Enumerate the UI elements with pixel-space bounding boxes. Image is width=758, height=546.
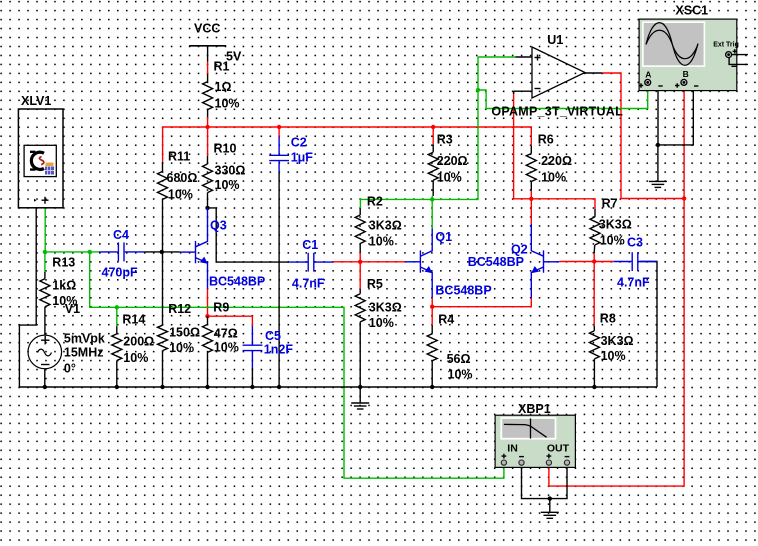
wire C5 bottom to bus: [251, 368, 253, 387]
resistor R7: [590, 217, 600, 245]
wire R7 bottom to node: [593, 253, 595, 262]
svg-text:3K3Ω: 3K3Ω: [369, 219, 402, 233]
junction black dot R4 at bus: [430, 385, 434, 389]
svg-text:C2: C2: [291, 136, 307, 150]
svg-text:10%: 10%: [215, 97, 240, 111]
wire scope A- and B- to ground: [658, 85, 693, 145]
instrument XLV1 box: [18, 109, 63, 208]
wire R1 bottom to bus: [207, 117, 209, 127]
resistor R8: [589, 331, 599, 359]
svg-text:C4: C4: [113, 228, 129, 242]
wire XLV1 - terminal down to ground bus: [19, 208, 36, 387]
svg-text:4.7nF: 4.7nF: [292, 277, 325, 291]
junction red dot C2 at bus: [277, 125, 281, 129]
wire ground bus along bottom: [19, 386, 657, 388]
transistor Q3: [180, 208, 208, 289]
junction red dot Q3 emitter / R9: [205, 314, 209, 318]
junction red dot Q1-Q2 emitters / R4: [430, 305, 434, 309]
svg-text:3K3Ω: 3K3Ω: [601, 334, 634, 348]
svg-text:3K3Ω: 3K3Ω: [599, 218, 632, 232]
svg-text:C5: C5: [265, 329, 281, 343]
svg-text:BC548BP: BC548BP: [468, 255, 524, 269]
transistor Q1: [405, 229, 432, 298]
svg-text:330Ω: 330Ω: [215, 164, 246, 178]
svg-text:10%: 10%: [123, 351, 148, 365]
wire R2 bottom to node: [359, 253, 361, 262]
svg-text:XSC1: XSC1: [675, 4, 708, 18]
resistor R14: [112, 334, 122, 361]
junction green dot R3/R2/Q1 collector: [430, 197, 434, 201]
junction red dot R1/R10 at bus: [205, 125, 209, 129]
junction green dot R14: [115, 305, 119, 309]
svg-text:1Ω: 1Ω: [215, 80, 232, 94]
svg-text:1μF: 1μF: [291, 151, 314, 165]
resistor R1: [203, 82, 213, 110]
junction black dot R9 at bus: [205, 385, 209, 389]
op-amp U1: [514, 47, 603, 98]
wire op+ branch to scope channel A: [478, 85, 648, 109]
wire input node down to R13 top: [44, 252, 46, 272]
junction black dot R12 at bus: [160, 385, 164, 389]
svg-text:BC548BP: BC548BP: [209, 275, 265, 289]
wire R10 bottom to Q3 collector node: [207, 193, 209, 208]
svg-text:BC548BP: BC548BP: [435, 283, 491, 297]
wire branch to R14 top: [116, 307, 118, 326]
resistor R6: [526, 154, 536, 182]
svg-text:200Ω: 200Ω: [123, 335, 154, 349]
capacitor C5: [243, 326, 263, 368]
junction black dot V1 at bus: [43, 385, 47, 389]
resistor R5: [355, 294, 365, 322]
svg-text:Q3: Q3: [210, 219, 227, 233]
junction black dot scope ground: [656, 143, 660, 147]
wire node to Q2 collector: [530, 199, 532, 224]
svg-text:R3: R3: [437, 133, 453, 147]
svg-text:3K3Ω: 3K3Ω: [369, 301, 402, 315]
wire R3 bottom to node: [431, 196, 433, 199]
wire R2 top to op-amp + net: [360, 57, 515, 208]
wire VCC symbol to R1 (red segment): [207, 62, 209, 75]
svg-text:C3: C3: [627, 236, 643, 250]
svg-text:220Ω: 220Ω: [541, 154, 572, 168]
svg-text:XLV1: XLV1: [21, 94, 51, 108]
wire node down to R8 top: [593, 262, 595, 326]
wire C3 right down to bus end: [640, 262, 657, 388]
wire node to R5 top: [359, 262, 361, 290]
svg-text:5mVpk: 5mVpk: [64, 332, 105, 346]
transistor Q2 (mirrored): [531, 224, 559, 298]
svg-text:680Ω: 680Ω: [167, 171, 198, 185]
svg-text:220Ω: 220Ω: [437, 154, 468, 168]
wire R5 bottom to bus and ground: [359, 322, 361, 387]
resistor R4: [427, 334, 437, 361]
wire Q2 base to R7 bottom / C3 node: [559, 261, 614, 263]
capacitor C3: [614, 252, 657, 271]
junction black dot R14 at bus: [115, 385, 119, 389]
resistor R2: [355, 215, 365, 244]
svg-text:R12: R12: [168, 302, 191, 316]
junction green dot op+ to scope A branch: [476, 88, 480, 92]
svg-text:C1: C1: [302, 238, 318, 252]
ground symbol XBP: [541, 512, 559, 518]
svg-text:10%: 10%: [369, 316, 394, 330]
svg-text:1kΩ: 1kΩ: [52, 279, 76, 293]
wire Q3 emitter net to R9/C5: [208, 289, 253, 326]
capacitor C2: [269, 137, 289, 172]
junction green dot XLV1/R13/C4: [43, 250, 47, 254]
junction black dot C2 at bus: [277, 385, 281, 389]
svg-text:U1: U1: [547, 33, 563, 47]
svg-text:0°: 0°: [64, 362, 76, 376]
junction black dot Q3 collector / R10 / C1: [205, 206, 209, 210]
wire C2 bottom to bus: [278, 172, 280, 387]
wire R9 bottom to bus: [207, 352, 209, 387]
wire R13 bottom to V1 top: [44, 307, 46, 335]
svg-text:R4: R4: [438, 313, 454, 327]
svg-text:OUT: OUT: [547, 443, 570, 455]
wire R14 bottom to bus: [116, 361, 118, 388]
svg-text:10%: 10%: [369, 235, 394, 249]
capacitor C1: [289, 253, 333, 272]
svg-text:150Ω: 150Ω: [169, 326, 200, 340]
wire R6 bottom to node: [530, 191, 532, 199]
wire R11 bottom to R12 top and C4/Q3 base node: [162, 199, 164, 325]
svg-text:V1: V1: [65, 302, 80, 316]
junction black dot XBP ground: [548, 496, 552, 500]
svg-text:56Ω: 56Ω: [447, 352, 471, 366]
svg-text:R10: R10: [214, 142, 237, 156]
wire V1 bottom to ground bus: [44, 369, 46, 387]
resistor R13: [40, 279, 50, 307]
svg-text:Q1: Q1: [435, 230, 452, 244]
resistor R3: [428, 152, 438, 180]
svg-text:OPAMP_3T_VIRTUAL: OPAMP_3T_VIRTUAL: [491, 105, 623, 119]
svg-text:10%: 10%: [169, 341, 194, 355]
wire C4 right to node and Q3 base: [144, 251, 179, 253]
junction red dot Q2 base / R7 / C3: [592, 259, 596, 263]
ground symbol scope: [649, 181, 667, 187]
svg-text:R6: R6: [538, 133, 554, 147]
svg-text:XBP1: XBP1: [518, 402, 551, 416]
svg-text:R7: R7: [602, 197, 618, 211]
svg-text:R11: R11: [168, 150, 190, 164]
wire R4 bottom to bus: [431, 361, 433, 387]
source V1 sine symbol: [28, 335, 62, 369]
svg-text:IN: IN: [507, 443, 518, 455]
svg-text:R9: R9: [213, 301, 229, 315]
svg-text:B: B: [683, 69, 689, 79]
svg-text:10%: 10%: [214, 341, 239, 355]
svg-text:Ext Trig: Ext Trig: [713, 42, 739, 49]
svg-text:10%: 10%: [215, 178, 240, 192]
junction black dot R5 at bus: [358, 385, 362, 389]
wire Q3 collector node jog to C1 left: [208, 208, 290, 262]
svg-text:10%: 10%: [168, 188, 193, 202]
wire node down to Q1 collector: [431, 199, 433, 228]
junction red dot output line at scope B: [682, 196, 686, 200]
svg-text:15MHz: 15MHz: [64, 346, 104, 360]
svg-text:R8: R8: [600, 312, 616, 326]
wire bus to C2 top: [278, 127, 280, 137]
wire VCC bus net (red) from R11 corner to R6 corner: [163, 127, 532, 162]
svg-text:R2: R2: [367, 195, 383, 209]
wire XBP ground stem: [549, 499, 551, 513]
junction red dot R3 at bus: [431, 125, 435, 129]
resistor R10: [203, 164, 213, 193]
svg-text:4.7nF: 4.7nF: [617, 276, 650, 290]
wire input node to C4 left: [45, 251, 99, 253]
resistor R12: [158, 325, 168, 350]
svg-text:1n2F: 1n2F: [264, 343, 294, 357]
wire C1 right to Q1 base / R5 top node: [333, 261, 405, 263]
wire R12 bottom to bus: [162, 351, 164, 387]
instrument XBP1 box: [495, 415, 575, 467]
power VCC symbol: [189, 46, 226, 82]
wire bus to R10 top: [207, 127, 209, 156]
junction black dot C5 at bus: [250, 385, 254, 389]
resistor R9: [203, 324, 213, 352]
junction red dot Q2 collector node: [529, 197, 533, 201]
instrument XSC1 box: [639, 19, 748, 91]
svg-text:VCC: VCC: [194, 22, 220, 36]
wire XLV1 + output down to input node (green): [44, 208, 46, 252]
svg-text:R5: R5: [367, 277, 383, 291]
capacitor C4: [99, 242, 144, 261]
svg-text:470pF: 470pF: [102, 266, 138, 280]
wire branch down and along to R14 and XBP IN+: [90, 252, 504, 478]
svg-text:R13: R13: [52, 256, 75, 270]
svg-text:47Ω: 47Ω: [214, 327, 238, 341]
junction black dot XLV1 base node: [160, 250, 164, 254]
wire scope ground stem: [657, 145, 659, 182]
junction green dot branch corner: [88, 250, 92, 254]
svg-text:R1: R1: [214, 60, 230, 74]
svg-text:10%: 10%: [601, 349, 626, 363]
resistor R11: [158, 171, 168, 199]
junction black dot R8 at bus: [592, 385, 596, 389]
ground symbol near R5: [351, 387, 369, 409]
wire node to R7 top: [531, 199, 595, 209]
svg-text:10%: 10%: [448, 368, 473, 382]
wire R8 bottom to bus: [593, 359, 595, 387]
wire scope channel B down to XBP OUT+: [549, 86, 684, 486]
wire Q1 emitter to Q2 emitter and R4: [432, 298, 531, 307]
svg-text:10%: 10%: [437, 171, 462, 185]
svg-text:R14: R14: [122, 313, 145, 327]
svg-text:A: A: [645, 69, 651, 79]
wire op-amp inverting input down to Q2 collector node: [514, 92, 532, 199]
wire XBP IN- / OUT- to ground: [522, 465, 568, 499]
wire bus to R3 top: [432, 127, 434, 144]
junction red dot C1/R5/Q1 base: [358, 260, 362, 264]
wire node to R4 top: [431, 307, 433, 326]
wire op-amp output to scope B net: [602, 73, 684, 199]
svg-text:10%: 10%: [541, 171, 566, 185]
svg-text:10%: 10%: [600, 234, 625, 248]
